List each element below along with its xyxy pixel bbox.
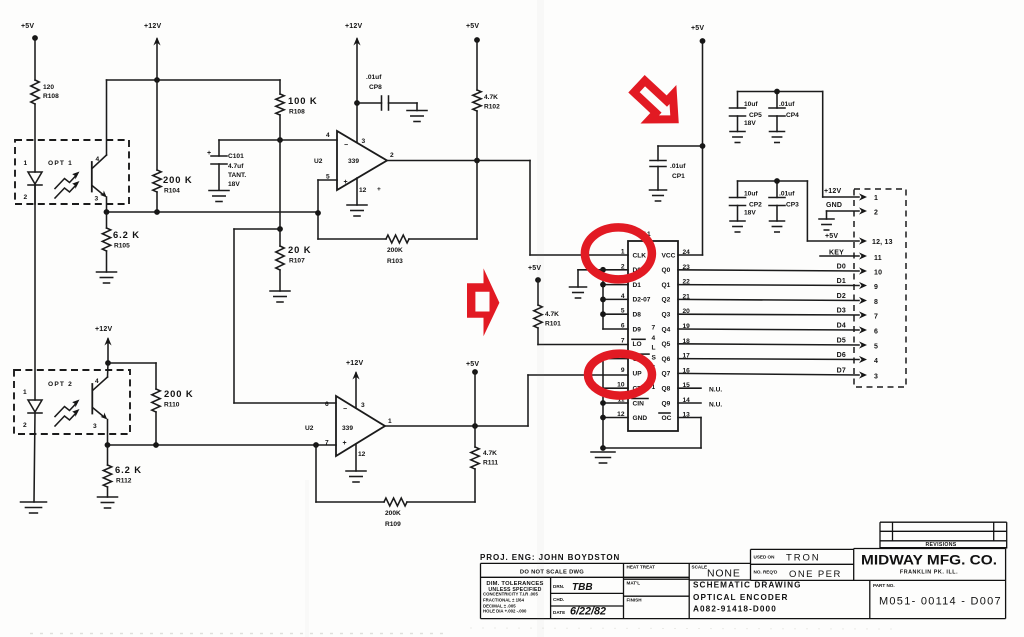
svg-text:3: 3 [95,196,99,203]
svg-text:+12V: +12V [824,188,841,195]
svg-text:MAT'L: MAT'L [627,581,641,586]
svg-text:D9: D9 [633,326,642,333]
svg-text:R104: R104 [164,188,180,195]
svg-text:8: 8 [874,299,878,306]
svg-text:7: 7 [652,325,656,332]
svg-text:D7: D7 [837,368,846,375]
svg-text:1: 1 [388,418,392,425]
svg-text:N.U.: N.U. [709,402,722,409]
svg-text:FRACTIONAL ± 1/64: FRACTIONAL ± 1/64 [483,598,525,603]
svg-text:Q8: Q8 [662,386,671,393]
svg-text:18V: 18V [228,181,240,188]
wire CLK net [529,161,531,256]
ground GND conn [819,218,834,220]
svg-text:20 K: 20 K [288,244,311,255]
wire UP net [527,375,529,426]
svg-text:339: 339 [342,425,353,432]
svg-text:Q4: Q4 [662,326,671,333]
svg-text:11: 11 [874,255,882,262]
IC U1 counter box [628,241,678,431]
OPT2 light arrow a [55,403,77,417]
svg-text:S: S [652,355,657,362]
svg-text:Q9: Q9 [662,400,671,407]
svg-text:6: 6 [325,401,329,408]
svg-text:+: + [207,150,211,157]
opto OPT2 dashed box [14,370,130,434]
wire LED chain mid [34,185,36,400]
svg-text:CP8: CP8 [369,84,382,91]
svg-text:+12V: +12V [144,23,161,30]
svg-text:+12V: +12V [95,326,112,333]
svg-text:DRN.: DRN. [553,584,564,589]
svg-text:U2: U2 [305,425,314,432]
svg-text:GND: GND [633,415,648,422]
ground CP8 [407,110,427,112]
svg-text:4: 4 [652,335,656,342]
svg-text:10uf: 10uf [744,101,758,108]
svg-text:Q0: Q0 [662,267,671,274]
wire +12V cap rail [738,91,823,93]
svg-text:D4: D4 [837,323,846,330]
scan streak [537,0,544,637]
svg-text:+12V: +12V [346,360,363,367]
svg-text:A082-91418-D000: A082-91418-D000 [693,605,777,614]
svg-text:6/22/82: 6/22/82 [570,606,606,618]
resistor R110 200K [155,363,157,389]
svg-text:6.2 K: 6.2 K [113,229,140,240]
wire op-amp2 output [385,425,528,427]
svg-text:4: 4 [96,156,100,163]
svg-text:+: + [344,179,348,186]
svg-text:+: + [377,186,381,193]
wire C101 to pin4 node [219,139,337,141]
svg-text:100 K: 100 K [288,95,318,106]
svg-text:PART NO.: PART NO. [873,583,895,588]
svg-text:200K: 200K [387,247,403,254]
wire pin5 to junction [318,179,337,181]
svg-text:+: + [343,440,347,447]
resistor R109 200K feedback [315,445,317,502]
svg-text:18V: 18V [744,120,756,127]
wire +12V to R110 [108,362,156,364]
svg-text:D0: D0 [837,264,846,271]
svg-text:−: − [343,406,347,413]
svg-text:9: 9 [621,367,625,374]
wire LO net [538,344,628,346]
svg-text:OPT 1: OPT 1 [48,160,73,167]
svg-text:Q1: Q1 [662,282,671,289]
U1 ground bus B pins 8-12 [602,359,604,448]
svg-text:R109: R109 [385,521,401,528]
svg-text:10uf: 10uf [744,191,758,198]
svg-text:.01uf: .01uf [670,163,686,170]
svg-text:REVISIONS: REVISIONS [925,542,956,548]
wire +5V to R108 [34,38,36,80]
node R107 top [277,226,283,232]
wire pin2 to ground [578,269,603,271]
svg-text:USED ON: USED ON [754,555,776,560]
svg-text:CP4: CP4 [786,112,799,119]
svg-text:D5: D5 [837,338,846,345]
capacitor CP2 10uf [737,181,739,198]
svg-text:CP3: CP3 [786,202,799,209]
svg-text:4.7K: 4.7K [484,94,498,101]
svg-text:2: 2 [23,422,27,429]
arrow conn pin 1 [859,193,867,200]
svg-text:D2-07: D2-07 [633,297,651,304]
wire R108 to OPT1 LED [34,104,36,172]
svg-text:D8: D8 [633,312,642,319]
connector J dashed box [854,189,906,387]
svg-text:U2: U2 [314,158,323,165]
capacitor CP8 .01uf [357,102,382,104]
svg-text:R112: R112 [116,478,132,485]
svg-text:MIDWAY MFG. CO.: MIDWAY MFG. CO. [861,553,997,568]
svg-text:ONE PER: ONE PER [789,569,842,580]
svg-text:200K: 200K [385,510,401,517]
wire OPT1 emitter down [106,197,108,212]
svg-text:4.7uf: 4.7uf [228,163,244,170]
svg-text:D1: D1 [837,278,846,285]
svg-text:2: 2 [24,194,28,201]
bottom scan noise [30,633,450,635]
svg-text:200 K: 200 K [163,174,193,185]
svg-text:M051- 00114 - D007: M051- 00114 - D007 [879,596,1002,608]
svg-text:1: 1 [24,160,28,167]
resistor R108 100K [279,80,281,94]
svg-text:TANT.: TANT. [228,172,246,179]
arrow conn pin 12 13 [859,237,867,244]
svg-text:SCHEMATIC DRAWING: SCHEMATIC DRAWING [693,581,802,590]
svg-text:R111: R111 [483,460,498,467]
wire ref to comparator2 pin6 [233,229,235,403]
svg-text:.01uf: .01uf [366,74,382,81]
OPT2 phototransistor pins 4-3 [91,384,93,414]
OPT1 light arrow b [55,185,77,199]
svg-text:7: 7 [874,314,878,321]
svg-text:VCC: VCC [662,252,676,259]
resistor R105 6.2K [106,212,108,228]
svg-text:OPTICAL ENCODER: OPTICAL ENCODER [693,593,789,602]
OPT2 light arrow b [55,413,77,427]
svg-text:3: 3 [93,423,97,430]
OPT1 LED diode [28,172,42,184]
svg-text:5: 5 [874,344,878,351]
stub pin14 N.U. [678,402,701,404]
svg-text:OPT 2: OPT 2 [48,381,73,388]
svg-text:UP: UP [633,371,643,378]
svg-text:7: 7 [621,337,625,344]
svg-text:R102: R102 [484,104,500,111]
svg-text:FRANKLIN PK. ILL.: FRANKLIN PK. ILL. [900,570,958,576]
ground op-amp1 pin12 [356,178,358,205]
ground near pin2 [570,286,587,288]
svg-text:R107: R107 [289,258,305,265]
svg-text:R105: R105 [114,243,130,250]
node OPT1 emitter junction [107,211,318,213]
OPT1 phototransistor Q pins 4-3 [91,162,93,192]
svg-text:D3: D3 [837,308,846,315]
svg-text:D2: D2 [837,293,846,300]
wire OPT2 emitter down [107,420,109,446]
svg-text:PROJ. ENG: JOHN BOYDSTON: PROJ. ENG: JOHN BOYDSTON [480,553,620,562]
ground C101 [209,190,229,192]
svg-text:+5V: +5V [466,23,479,30]
svg-text:18V: 18V [744,210,756,217]
wire +12V rail [107,79,281,81]
svg-text:R101: R101 [545,321,561,328]
ground CP3 [770,220,785,222]
svg-text:DATE: DATE [553,610,565,615]
resistor R108 120 [31,80,39,104]
capacitor CP4 .01uf [776,92,778,109]
red circle around U1 pins 1-2 [585,227,652,279]
svg-text:12: 12 [359,187,367,194]
svg-text:Q7: Q7 [662,371,671,378]
svg-text:9: 9 [874,284,878,291]
svg-text:CP2: CP2 [749,202,762,209]
svg-text:R110: R110 [164,402,180,409]
svg-text:200 K: 200 K [164,388,194,399]
svg-text:D1: D1 [633,282,642,289]
ground CP1 [650,189,667,191]
opto OPT1 dashed box [15,140,129,204]
svg-text:Q3: Q3 [662,312,671,319]
ground R112 [98,496,118,498]
svg-text:4: 4 [95,378,99,385]
svg-text:6.2 K: 6.2 K [115,464,142,475]
red arrow annotation top [628,74,686,132]
wire pin13 OC wrap [678,417,701,419]
svg-text:CLK: CLK [633,252,647,259]
svg-text:FINISH: FINISH [627,598,643,603]
svg-text:2: 2 [390,152,394,159]
svg-text:3: 3 [874,374,878,381]
svg-text:+5V: +5V [21,23,34,30]
svg-text:Q2: Q2 [662,297,671,304]
svg-text:.01uf: .01uf [779,191,795,198]
svg-text:1: 1 [621,249,625,256]
svg-text:Q5: Q5 [662,341,671,348]
svg-text:CHD.: CHD. [553,597,564,602]
svg-text:1: 1 [23,389,27,396]
svg-text:TBB: TBB [572,582,593,593]
ground CP5 [730,131,745,133]
resistor R101 4.7K [534,305,542,328]
svg-text:3: 3 [362,138,366,145]
svg-text:−: − [344,142,348,149]
svg-text:CONCENTRICITY T.I.R .005: CONCENTRICITY T.I.R .005 [483,591,538,596]
svg-text:NO. REQ'D: NO. REQ'D [754,570,778,575]
svg-text:+5V: +5V [825,233,838,240]
svg-text:C101: C101 [228,153,244,160]
svg-text:4.7K: 4.7K [483,450,497,457]
capacitor CP3 .01uf [776,181,778,198]
svg-text:GND: GND [826,202,842,209]
svg-text:R108: R108 [43,93,59,100]
wire op-amp1 output [387,160,530,162]
svg-text:4: 4 [326,132,330,139]
ground CP4 [770,131,785,133]
wire 100K node down [279,140,281,229]
ground OPT2 LED [21,501,47,503]
resistor R102 4.7K [473,90,481,111]
resistor R103 200K feedback [318,238,386,240]
svg-text:+5V: +5V [691,25,704,32]
ground R107 [270,290,290,292]
svg-text:2: 2 [874,210,878,217]
stub pin15 N.U. [678,387,701,389]
svg-text:+12V: +12V [345,23,362,30]
resistor R112 6.2K [107,445,109,465]
ground op-amp2 pin12 [355,444,357,471]
ground U1 bottom [591,451,615,453]
svg-text:CP5: CP5 [749,112,762,119]
svg-text:DO NOT SCALE DWG: DO NOT SCALE DWG [520,570,584,576]
svg-text:HOLE DIA +.002 -.000: HOLE DIA +.002 -.000 [483,609,527,614]
svg-text:L: L [652,345,656,352]
svg-text:HEAT TREAT: HEAT TREAT [627,565,656,570]
wire OPT2 collector [107,363,110,377]
svg-text:TRON: TRON [786,553,821,564]
svg-text:DECIMAL ± .005: DECIMAL ± .005 [483,603,516,608]
resistor R111 4.7K [474,426,476,447]
svg-text:4: 4 [874,358,878,365]
svg-text:+5V: +5V [466,361,479,368]
svg-text:1: 1 [874,195,878,202]
svg-text:10: 10 [874,270,882,277]
svg-text:3: 3 [361,402,365,409]
svg-text:Q6: Q6 [662,356,671,363]
svg-text:12, 13: 12, 13 [872,239,893,246]
svg-text:12: 12 [358,451,366,458]
svg-text:SCALE: SCALE [692,564,708,569]
svg-text:339: 339 [348,158,359,165]
svg-text:D6: D6 [837,352,846,359]
svg-text:6: 6 [874,329,878,336]
svg-text:.01uf: .01uf [779,101,795,108]
capacitor C101 [218,140,220,156]
svg-text:CIN: CIN [633,400,645,407]
svg-text:R108: R108 [289,109,305,116]
resistor R104 200K [156,80,158,170]
svg-text:DIM. TOLERANCES: DIM. TOLERANCES [486,581,543,587]
op-amp U2 second 339 [336,396,385,456]
ground CP2 [730,220,745,222]
op-amp U2 first 339 [337,131,387,190]
svg-text:7: 7 [325,440,329,447]
svg-text:LO: LO [633,341,642,348]
svg-text:NONE: NONE [707,568,741,580]
resistor R107 20K [276,246,284,270]
node OPT2 emitter junction [108,444,337,446]
svg-text:R103: R103 [387,258,403,265]
OPT2 LED diode [28,400,42,412]
svg-text:OC: OC [662,415,672,422]
red arrow annotation middle [467,268,499,336]
U1 ground bus A pins 2-6 [602,270,604,329]
capacitor CP5 10uf [737,92,739,109]
wire OPT1 collector to +12V rail [106,80,108,155]
capacitor CP1 .01uf [658,145,703,147]
wires D0-D7 to connector [678,270,859,271]
svg-text:120: 120 [43,84,54,91]
svg-text:4.7K: 4.7K [545,311,559,318]
svg-text:CP1: CP1 [672,173,685,180]
wire VCC pin24 to +5V [678,254,703,256]
OPT1 light arrow a [55,175,77,189]
svg-text:N.U.: N.U. [709,387,722,394]
ground R105 [97,271,117,273]
wire +5V cap rail [738,180,808,182]
red circle around U1 pin 9 UP [588,354,652,396]
